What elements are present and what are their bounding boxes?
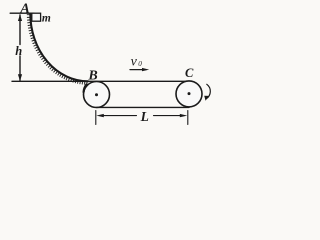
dimension line L with arrows xyxy=(96,114,187,117)
svg-text:C: C xyxy=(185,66,194,80)
velocity arrow xyxy=(130,68,149,71)
dimension line h (vertical, arrows both ends) xyxy=(18,14,22,81)
pulley C xyxy=(176,81,202,107)
svg-text:v0: v0 xyxy=(131,55,143,70)
rotation arrow at C xyxy=(204,84,210,101)
block m xyxy=(32,13,41,21)
ground line / belt top line xyxy=(12,80,189,82)
dimension tick below C xyxy=(187,111,189,125)
svg-text:L: L xyxy=(140,109,149,124)
ramp hatching xyxy=(27,15,87,85)
belt wrap at B left xyxy=(84,85,87,93)
top reference tick line at A xyxy=(10,12,34,14)
dimension tick below B xyxy=(95,111,97,125)
svg-text:m: m xyxy=(42,12,51,24)
pulley C axle dot xyxy=(188,92,191,95)
pulley B axle dot xyxy=(95,93,98,96)
pulley B xyxy=(84,82,110,108)
ramp curve A to B xyxy=(30,14,88,82)
svg-text:h: h xyxy=(15,44,22,58)
belt bottom line xyxy=(97,106,190,108)
